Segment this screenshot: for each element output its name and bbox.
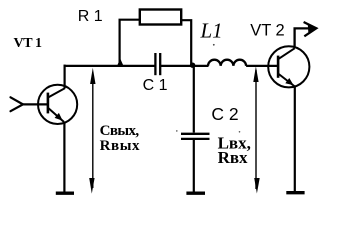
wire R1 left branch bbox=[120, 20, 141, 65]
wire top bus middle segment bbox=[161, 65, 209, 67]
wire top bus right segment bbox=[246, 65, 278, 67]
wire VT1 emitter drop bbox=[63, 122, 65, 193]
svg-text:C 1: C 1 bbox=[143, 77, 168, 94]
capacitor C2 bbox=[181, 134, 210, 139]
capacitor C1 bbox=[155, 53, 160, 75]
inductor L1 bbox=[208, 60, 246, 66]
ground VT1 emitter bbox=[56, 191, 74, 194]
wire VT1 collector riser bbox=[63, 65, 65, 89]
speck below L1 bbox=[213, 44, 215, 46]
wire C2 lower drop bbox=[193, 140, 195, 193]
label Lvh Rvh bbox=[218, 133, 251, 167]
wire C2 upper drop bbox=[193, 65, 195, 133]
transistor Q1 VT1 bbox=[38, 85, 77, 124]
ground C2 bbox=[186, 191, 205, 194]
speck left of C2 bbox=[176, 130, 178, 132]
svg-text:C 2: C 2 bbox=[211, 104, 238, 124]
wire top bus left segment bbox=[64, 65, 155, 67]
ground VT2 emitter bbox=[286, 191, 304, 194]
svg-text:VT 2: VT 2 bbox=[250, 22, 285, 40]
dimension arrow left (output port) bbox=[89, 68, 95, 194]
transistor Q2 VT2 bbox=[268, 46, 309, 87]
svg-text:VT 1: VT 1 bbox=[14, 36, 42, 51]
wire VT2 emitter drop bbox=[294, 87, 296, 193]
svg-text:Rвх: Rвх bbox=[218, 148, 248, 167]
speck above Lvh label bbox=[239, 131, 241, 133]
wire VT2 collector riser and output arrow bbox=[295, 22, 317, 49]
resistor R1 bbox=[140, 10, 181, 25]
svg-text:L1: L1 bbox=[200, 18, 223, 42]
input arrow bbox=[11, 97, 48, 111]
svg-text:R 1: R 1 bbox=[78, 8, 103, 25]
dimension arrow right (input port) bbox=[253, 66, 259, 193]
node junction 2 bbox=[190, 62, 195, 67]
wire R1 right branch bbox=[181, 20, 192, 64]
label Cvyh Rvyh bbox=[100, 123, 141, 154]
node junction 1 bbox=[117, 59, 124, 68]
svg-text:Свых,: Свых, bbox=[100, 123, 140, 139]
svg-text:Rвых: Rвых bbox=[100, 138, 141, 154]
